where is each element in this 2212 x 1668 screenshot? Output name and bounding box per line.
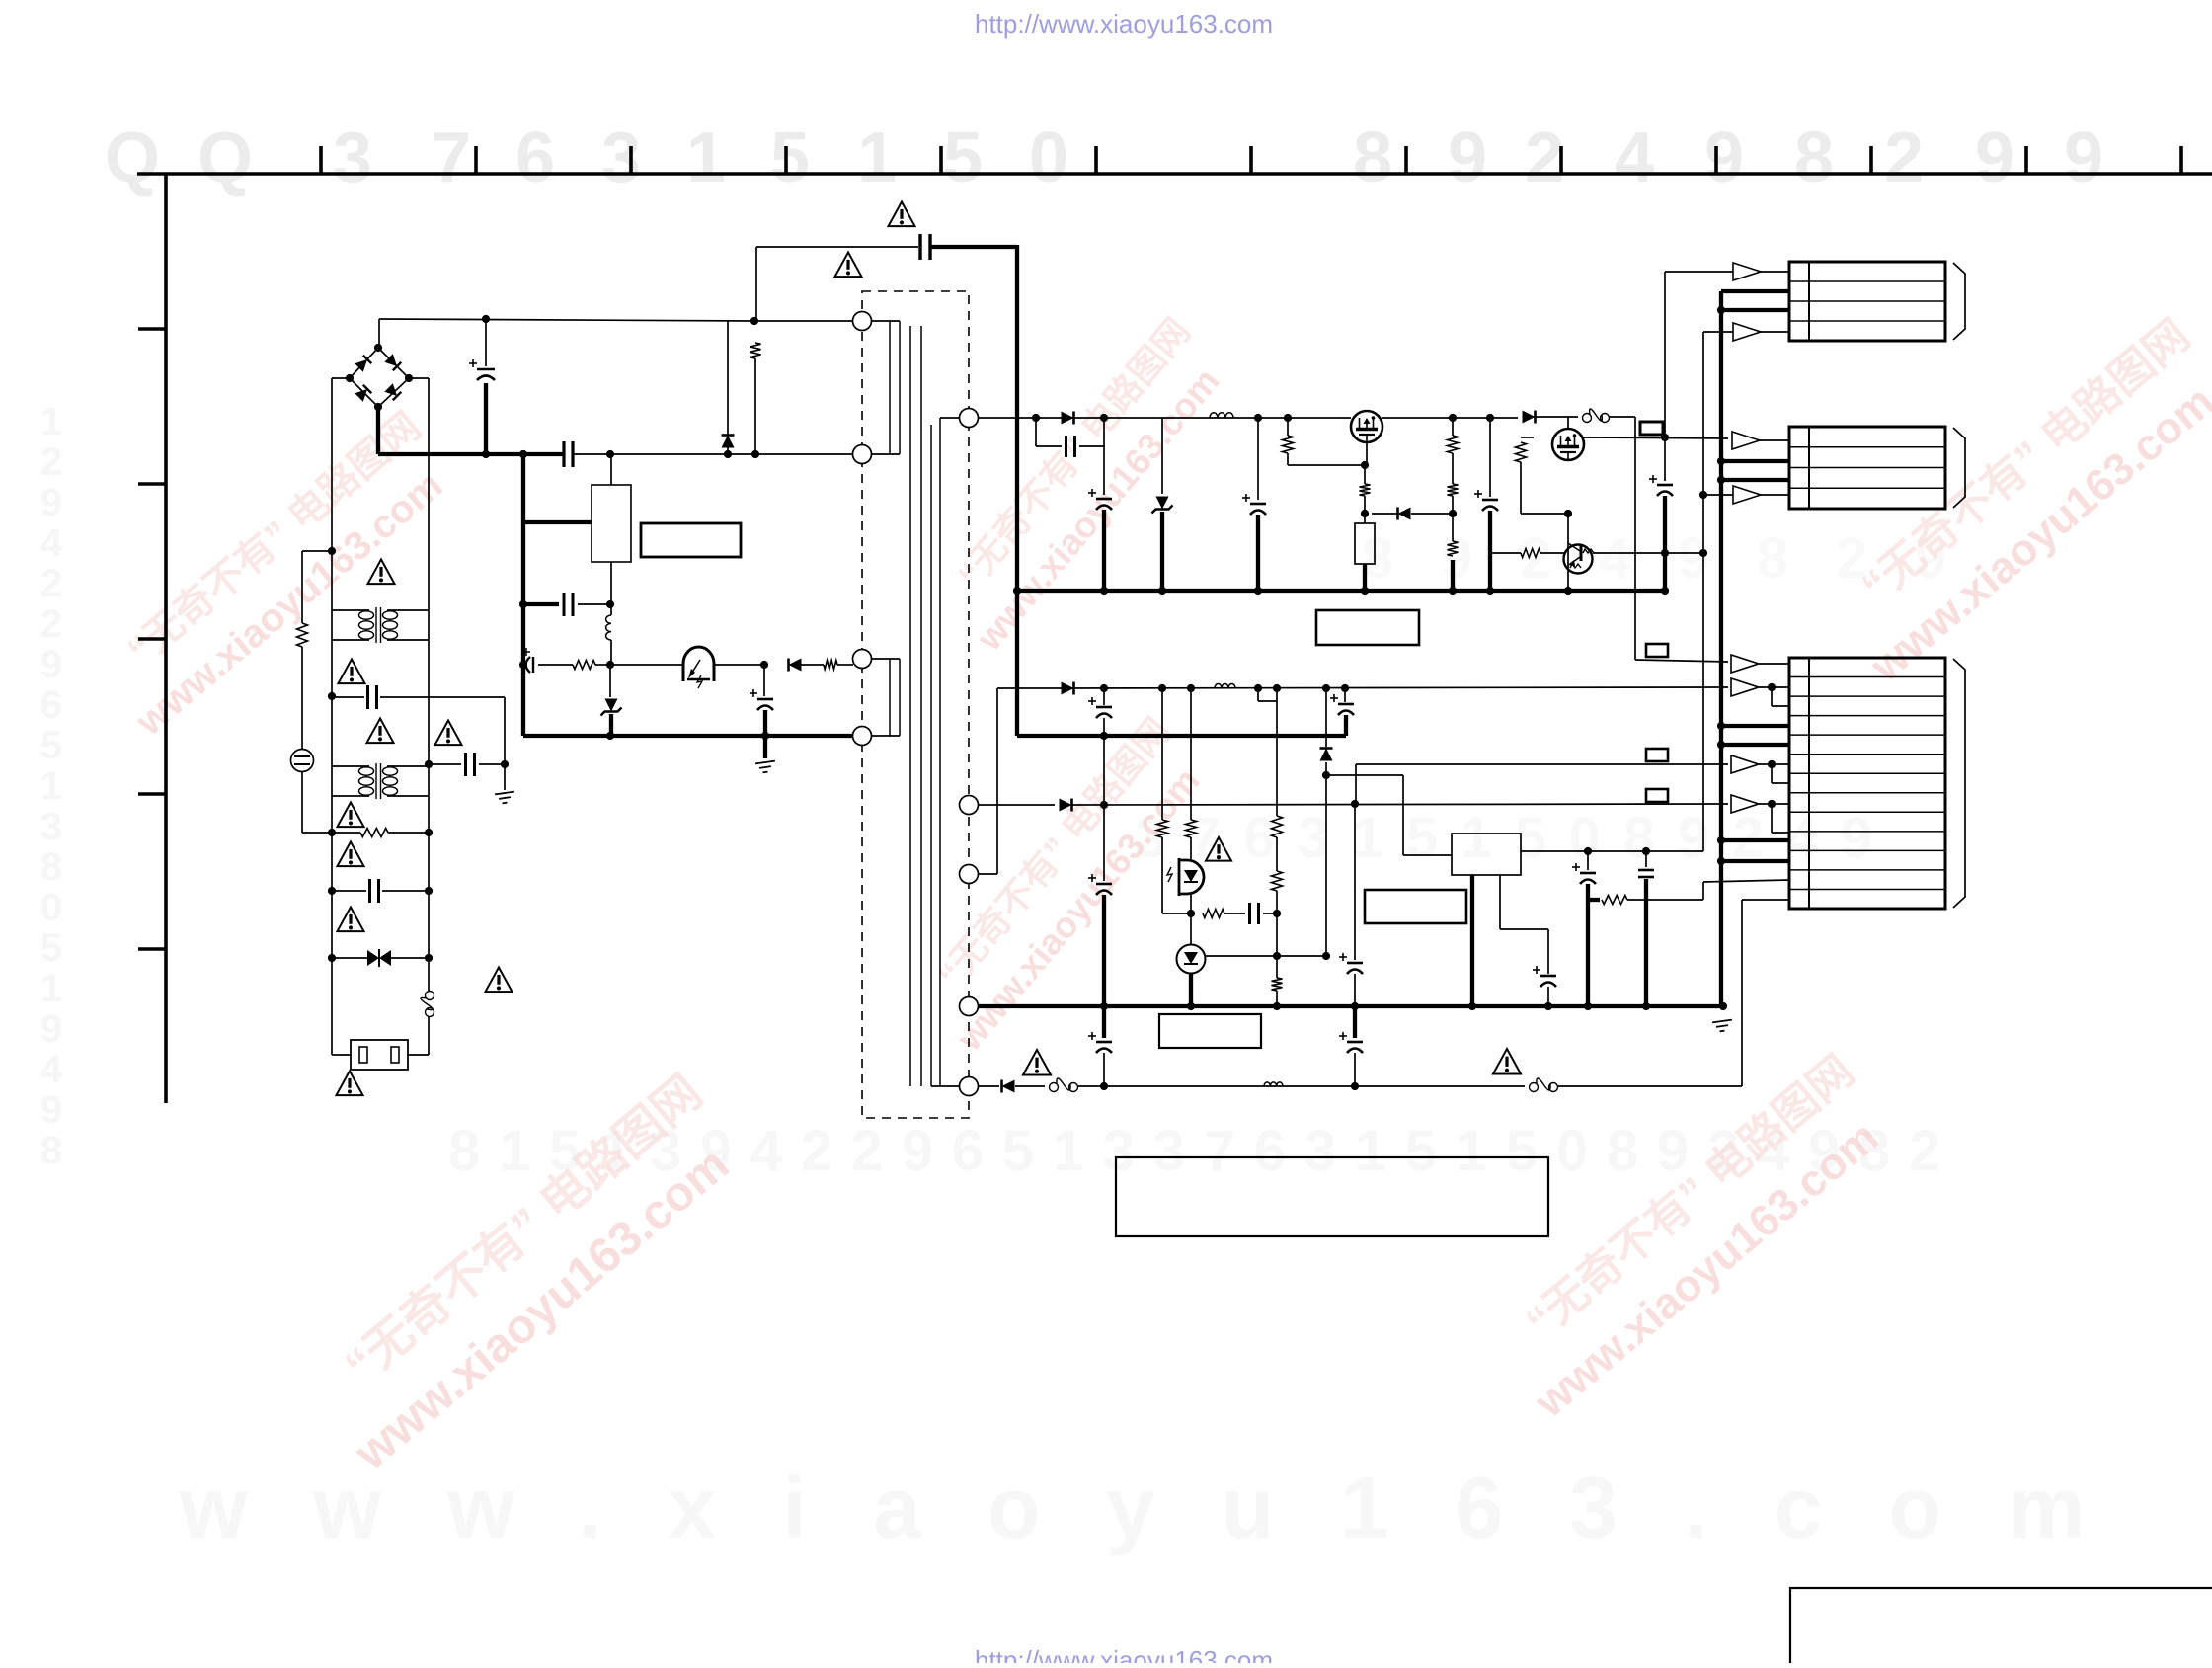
svg-text:1: 1 [686, 119, 726, 198]
svg-text:0: 0 [1556, 1119, 1588, 1183]
svg-text:3: 3 [40, 805, 62, 848]
svg-text:7: 7 [432, 119, 471, 198]
svg-text:6: 6 [952, 1119, 984, 1183]
svg-text:4: 4 [1786, 806, 1818, 870]
svg-text:9: 9 [40, 643, 62, 686]
svg-text:0: 0 [40, 886, 62, 929]
svg-text:5: 5 [1515, 806, 1546, 870]
svg-text:5: 5 [1002, 1119, 1034, 1183]
svg-text:8: 8 [1757, 526, 1788, 591]
svg-text:8: 8 [448, 1119, 480, 1183]
svg-text:9: 9 [2064, 119, 2103, 198]
svg-text:8: 8 [1794, 119, 1834, 198]
svg-text:2: 2 [1525, 119, 1564, 198]
svg-text:Q: Q [105, 119, 160, 198]
svg-text:http://www.xiaoyu163.com: http://www.xiaoyu163.com [975, 1645, 1273, 1663]
svg-text:1: 1 [499, 1119, 530, 1183]
svg-text:1: 1 [1053, 1119, 1084, 1183]
svg-text:3: 3 [1304, 1119, 1336, 1183]
svg-text:9: 9 [1841, 806, 1872, 870]
svg-text:3: 3 [333, 119, 372, 198]
svg-text:9: 9 [1678, 806, 1709, 870]
svg-text:6: 6 [1243, 806, 1275, 870]
svg-text:9: 9 [902, 1119, 933, 1183]
svg-text:4: 4 [1599, 526, 1630, 591]
svg-text:6: 6 [515, 119, 555, 198]
svg-text:0: 0 [1029, 119, 1068, 198]
svg-text:1: 1 [40, 764, 62, 808]
svg-text:9: 9 [1678, 526, 1709, 591]
svg-text:0: 0 [1569, 806, 1601, 870]
svg-text:1: 1 [857, 119, 897, 198]
svg-text:http://www.xiaoyu163.com: http://www.xiaoyu163.com [975, 9, 1273, 39]
svg-text:9: 9 [1441, 526, 1472, 591]
svg-text:4: 4 [750, 1119, 782, 1183]
svg-text:2: 2 [851, 1119, 883, 1183]
svg-text:9: 9 [40, 1088, 62, 1132]
svg-text:www.xiaoyu163.com: www.xiaoyu163.com [179, 1459, 2152, 1556]
svg-text:3: 3 [1298, 806, 1329, 870]
svg-text:5: 5 [1406, 806, 1438, 870]
svg-text:2: 2 [1909, 1119, 1940, 1183]
svg-text:2: 2 [801, 1119, 832, 1183]
svg-text:9: 9 [40, 1007, 62, 1051]
svg-text:2: 2 [40, 440, 62, 484]
svg-text:6: 6 [1254, 1119, 1286, 1183]
svg-text:5: 5 [1506, 1119, 1538, 1183]
svg-text:5: 5 [770, 119, 810, 198]
svg-text:8: 8 [1353, 119, 1392, 198]
svg-text:5: 5 [40, 724, 62, 767]
svg-text:8: 8 [40, 1129, 62, 1172]
svg-text:4: 4 [40, 521, 63, 565]
svg-text:3: 3 [1103, 1119, 1135, 1183]
svg-text:3: 3 [1153, 1119, 1185, 1183]
svg-text:9: 9 [40, 481, 62, 524]
svg-text:1: 1 [1456, 1119, 1487, 1183]
svg-text:9: 9 [1975, 119, 2014, 198]
svg-text:9: 9 [1704, 119, 1744, 198]
svg-text:5: 5 [943, 119, 983, 198]
svg-text:1: 1 [1355, 1119, 1386, 1183]
svg-text:8: 8 [1623, 806, 1655, 870]
svg-text:5: 5 [1405, 1119, 1437, 1183]
svg-text:8: 8 [1607, 1119, 1638, 1183]
svg-text:3: 3 [601, 119, 641, 198]
svg-text:2: 2 [40, 562, 62, 605]
svg-text:8: 8 [40, 845, 62, 889]
svg-text:4: 4 [1615, 119, 1654, 198]
svg-text:4: 4 [40, 1048, 63, 1091]
svg-text:1: 1 [1352, 806, 1383, 870]
svg-text:1: 1 [1461, 806, 1492, 870]
svg-text:Q: Q [197, 119, 253, 198]
svg-text:1: 1 [40, 967, 62, 1010]
svg-text:2: 2 [1884, 119, 1924, 198]
svg-text:2: 2 [40, 602, 62, 646]
svg-text:1: 1 [40, 400, 62, 443]
svg-text:7: 7 [1204, 1119, 1235, 1183]
svg-text:6: 6 [40, 683, 62, 727]
svg-text:5: 5 [40, 926, 62, 970]
svg-text:9: 9 [1448, 119, 1487, 198]
